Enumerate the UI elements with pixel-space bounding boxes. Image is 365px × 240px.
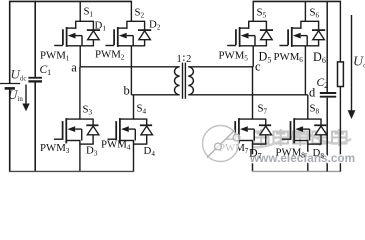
diode D6 — [312, 21, 325, 46]
watermark gray site text — [252, 129, 351, 147]
wire top rail right bridge — [253, 0, 341, 2]
diode D1 — [87, 21, 100, 46]
svg-text:b: b — [124, 84, 130, 98]
capacitor C2 — [320, 1, 336, 171]
wire top rail left bridge — [9, 0, 132, 2]
node b wire — [131, 94, 179, 96]
transistor S8 — [282, 95, 322, 172]
svg-text:PWM2: PWM2 — [95, 49, 125, 62]
wire left input rail upper — [9, 1, 11, 84]
node d wire — [188, 94, 307, 96]
svg-text:PWM6: PWM6 — [274, 51, 304, 64]
transistor S2 — [105, 1, 145, 94]
diode D2 — [138, 21, 151, 46]
diode D8 — [314, 119, 327, 144]
watermark logo circle — [203, 126, 240, 162]
svg-text:PWM5: PWM5 — [219, 50, 249, 63]
diode D4 — [140, 119, 153, 144]
wire bottom rail right bridge — [252, 170, 341, 172]
transistor S1 — [54, 1, 94, 66]
svg-text:PWM4: PWM4 — [101, 139, 131, 152]
transistor S4 — [108, 95, 148, 172]
battery Udc source — [0, 84, 20, 89]
svg-text:PWM3: PWM3 — [40, 142, 70, 155]
diode D5 — [260, 21, 273, 46]
diode D7 — [259, 119, 272, 144]
diode D3 — [86, 119, 99, 144]
transistor S6 — [279, 1, 319, 94]
wire bottom rail left bridge — [9, 170, 134, 172]
transistor S7 — [227, 67, 267, 172]
svg-text:1∶2: 1∶2 — [177, 54, 193, 65]
svg-text:d: d — [309, 86, 316, 100]
arrow Uin — [22, 85, 29, 112]
node a wire — [80, 66, 179, 68]
svg-text:PWM8: PWM8 — [276, 147, 306, 160]
arrow Uo — [348, 15, 356, 119]
resistor load — [338, 1, 344, 171]
node c wire — [188, 66, 253, 68]
svg-text:a: a — [71, 60, 77, 74]
watermark url text — [249, 151, 355, 165]
svg-text:PWM1: PWM1 — [40, 50, 70, 63]
transformer T1 — [175, 63, 194, 99]
transistor S3 — [54, 67, 94, 172]
wire left input rail lower — [9, 88, 11, 172]
transistor S5 — [227, 1, 267, 66]
capacitor C1 — [28, 1, 42, 172]
